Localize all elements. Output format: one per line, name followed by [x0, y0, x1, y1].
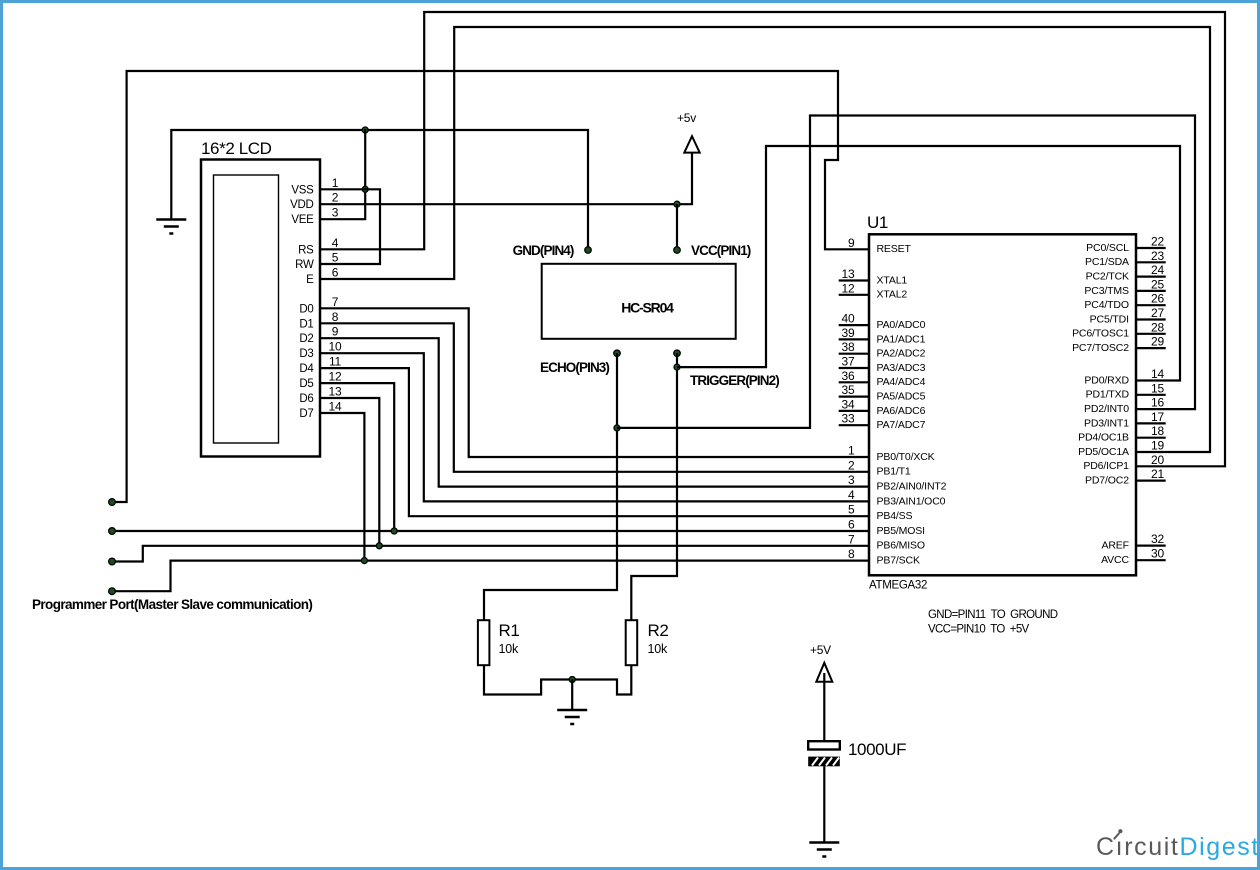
wire R1,R2 bottoms to ground [484, 665, 631, 695]
U1 pin 20 PD6/ICP1 [1083, 453, 1164, 472]
power symbol +5V (bottom) [816, 663, 832, 682]
node ECHO(PIN3) terminal dot [614, 350, 621, 357]
U1 pin 24 PC2/TCK [1086, 263, 1166, 282]
U1 pin 23 PC1/SDA [1085, 249, 1166, 268]
U1 pin 3 PB2/AIN0/INT2 [848, 473, 947, 492]
wire TRIGGER to PD0/RXD [677, 146, 1180, 381]
U1 pin 9 RESET [848, 236, 911, 255]
U1 pin 37 PA3/ADC3 [839, 355, 926, 374]
wire VCC(PIN1) drop [676, 204, 678, 250]
wire E to PD5/OC1A [320, 27, 1210, 452]
LCD pin 1 VSS label [291, 176, 338, 197]
LCD pin 13 D6 label [299, 385, 342, 406]
ground symbol (left of LCD) [156, 218, 186, 221]
node programmer port pin 3 (MISO) [109, 558, 116, 565]
wire D5 drop to PB5 rail [320, 383, 394, 531]
U1 pin 19 PD5/OC1A [1078, 439, 1164, 458]
U1 pin 16 PD2/INT0 [1084, 396, 1164, 415]
LCD pin 9 D2 label [299, 325, 338, 346]
LCD pin 4 RS label [298, 236, 339, 256]
ground symbol (below capacitor) [809, 841, 839, 844]
junction dot GND rail / VEE branch [362, 127, 368, 133]
junction dot D7 on PB7 rail [361, 558, 367, 564]
LCD pin 7 D0 label [299, 295, 338, 316]
wire GND net: ground to LCD-VSS rail and GND(PIN4) [171, 130, 588, 250]
node VCC(PIN1) terminal dot [674, 247, 681, 254]
U1 pin 26 PC4/TDO [1084, 292, 1165, 311]
wire PB5/MOSI rail [112, 530, 870, 532]
node programmer port pin 1 (reset) [109, 499, 116, 506]
node TRIGGER(PIN2) terminal dot [674, 350, 681, 357]
LCD pin 10 D3 label [299, 340, 342, 361]
junction dot resistor ground node [569, 676, 575, 682]
U1 pin 30 AVCC [1101, 547, 1166, 566]
ground symbol (below R1,R2) [557, 709, 587, 712]
junction dot TRIGGER branch [674, 364, 680, 370]
capacitor C1 bottom plate (polarized) [808, 757, 840, 767]
wire RS to PD6/ICP1 [320, 12, 1225, 466]
wire D7 drop to PB7 rail [320, 413, 364, 561]
LCD pin 6 E label [306, 266, 339, 287]
LCD pin 14 D7 label [299, 400, 342, 421]
wire VEE stub to GND rail [320, 129, 365, 219]
wire D1 to PB1 [320, 323, 869, 472]
U1 pin 22 PC0/SCL [1086, 235, 1166, 254]
wire ECHO down to R1 [484, 353, 617, 621]
wire capacitor to ground [823, 766, 825, 841]
LCD pin 5 RW label [295, 251, 339, 272]
U1 pin 5 PB4/SS [848, 503, 913, 522]
U1 pin 25 PC3/TMS [1084, 277, 1165, 296]
U1 pin 17 PD3/INT1 [1084, 410, 1166, 429]
resistor R1 body [478, 620, 490, 665]
LCD pin 11 D4 label [299, 355, 341, 376]
wire TRIGGER down to R2 [631, 353, 677, 621]
logo CircuitDigest [1096, 829, 1260, 861]
wire D3 to PB3 [320, 353, 869, 501]
wire VDD rail to +5v arrow [320, 147, 692, 204]
junction dot ECHO branch [614, 425, 620, 431]
junction dot on VSS stub [362, 186, 368, 192]
junction dot D5 on PB5 rail [391, 528, 397, 534]
LCD display window [214, 175, 279, 443]
capacitor C1 top plate [808, 741, 840, 749]
U1 pin 36 PA4/ADC4 [839, 369, 926, 388]
U1 pin 18 PD4/OC1B [1078, 424, 1166, 443]
U1 pin 29 PC7/TOSC2 [1072, 335, 1166, 354]
U1 pin 8 PB7/SCK [848, 547, 920, 566]
wire VSS stub tied to RW stub [320, 189, 380, 264]
U1 pin 7 PB6/MISO [848, 532, 925, 551]
U1 pin 35 PA5/ADC5 [839, 383, 926, 402]
wire ECHO to PD2/INT0 [617, 116, 1195, 428]
U1 pin 12 XTAL2 [839, 281, 908, 300]
power symbol +5v (top) [684, 136, 699, 152]
U1 pin 4 PB3/AIN1/OC0 [848, 488, 946, 507]
U1 pin 2 PB1/T1 [848, 458, 911, 477]
U1 pin 6 PB5/MOSI [848, 518, 925, 537]
U1 pin 28 PC6/TOSC1 [1072, 320, 1166, 339]
wire D6 drop to PB6 rail [320, 398, 379, 546]
LCD pin 2 VDD label [290, 191, 339, 212]
junction dot D6 on PB6 rail [376, 543, 382, 549]
wire D4 to PB4 [320, 368, 869, 516]
U1 pin 14 PD0/RXD [1084, 367, 1164, 386]
U1 pin 27 PC5/TDI [1090, 306, 1166, 325]
U1 pin 21 PD7/OC2 [1085, 467, 1166, 486]
node programmer port pin 2 (MOSI) [109, 528, 116, 535]
LCD pin 3 VEE label [291, 206, 338, 227]
LCD module 16*2 LCD box [201, 160, 320, 457]
junction dot VDD/VCC branch [674, 201, 680, 207]
wire D0 to PB0 [320, 308, 869, 457]
U1 pin 32 AREF [1101, 532, 1165, 551]
U1 pin 13 XTAL1 [839, 267, 908, 286]
IC U1 ATMEGA32 box [869, 234, 1136, 575]
U1 pin 40 PA0/ADC0 [839, 312, 926, 331]
U1 pin 33 PA7/ADC7 [839, 412, 926, 431]
U1 pin 15 PD1/TXD [1086, 381, 1166, 400]
node programmer port pin 4 (SCK) [109, 588, 116, 595]
LCD pin 12 D5 label [299, 370, 342, 391]
LCD pin 8 D1 label [299, 310, 338, 331]
wire programmer to PB7/SCK rail [112, 561, 870, 592]
HC-SR04 module box [542, 264, 736, 339]
node GND(PIN4) terminal dot [585, 247, 592, 254]
U1 pin 39 PA1/ADC1 [839, 326, 926, 345]
U1 pin 1 PB0/T0/XCK [848, 444, 935, 463]
U1 pin 34 PA6/ADC6 [839, 397, 926, 416]
resistor R2 body [626, 620, 638, 665]
wire programmer reset line to U1 RESET [112, 71, 870, 502]
U1 pin 38 PA2/ADC2 [839, 340, 926, 359]
wire ground stem [571, 680, 573, 710]
wire D2 to PB2 [320, 338, 869, 486]
wire programmer to PB6/MISO rail [112, 546, 870, 562]
wire +5V to capacitor [823, 673, 825, 741]
